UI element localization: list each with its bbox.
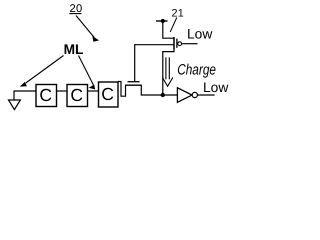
leader arrow from ML to wire at capacitor C3 (right)	[79, 56, 96, 90]
svg-text:Low: Low	[187, 26, 212, 41]
transistor Q2 gate plate	[128, 81, 140, 83]
wire Q1 drain down to output node (stepped)	[163, 50, 174, 96]
svg-text:C: C	[70, 85, 83, 105]
wire C2 to C3	[88, 90, 99, 92]
transistor Q1 channel plate	[173, 37, 175, 50]
svg-text:20: 20	[70, 3, 83, 15]
leader arrow from label 20	[76, 16, 99, 42]
transistor Q2 drain lead down to output wire	[141, 85, 178, 95]
svg-text:Low: Low	[203, 80, 228, 95]
leader line from label 21	[170, 18, 177, 33]
wire inverter output	[198, 94, 215, 96]
junction dot on VDD bar	[161, 19, 165, 23]
wire ground to C1	[14, 90, 37, 92]
ground	[9, 91, 21, 110]
transistor Q1 gate bubble	[178, 42, 182, 46]
leader arrow from ML to ground wire (left)	[20, 56, 64, 87]
wire VDD to transistor Q1 source	[163, 21, 174, 38]
svg-text:C: C	[39, 85, 52, 105]
power supply bar (VDD)	[156, 20, 168, 22]
charge arrow (double-line down arrow)	[162, 57, 173, 86]
junction dot at output node	[161, 93, 165, 97]
inverter U1	[177, 88, 197, 103]
wire C1 to C2	[57, 90, 68, 92]
svg-text:21: 21	[172, 8, 185, 20]
svg-text:Charge: Charge	[177, 61, 216, 78]
transistor Q2 channel plate	[125, 84, 141, 86]
wire Q1 gate to Low input	[182, 43, 198, 45]
wire Q2 gate node to transistor Q1 channel	[134, 44, 174, 46]
transistor Q2 gate lead (up to PMOS drain wire)	[134, 45, 136, 82]
transistor Q1 gate plate	[176, 39, 178, 48]
capacitor C1	[36, 85, 57, 107]
capacitor C2	[67, 85, 88, 107]
wire C3 to transistor Q2 source (stepped)	[118, 82, 126, 97]
capacitor C3	[99, 82, 119, 107]
svg-text:C: C	[101, 84, 114, 104]
label 20	[69, 3, 82, 15]
svg-text:ML: ML	[64, 41, 84, 57]
